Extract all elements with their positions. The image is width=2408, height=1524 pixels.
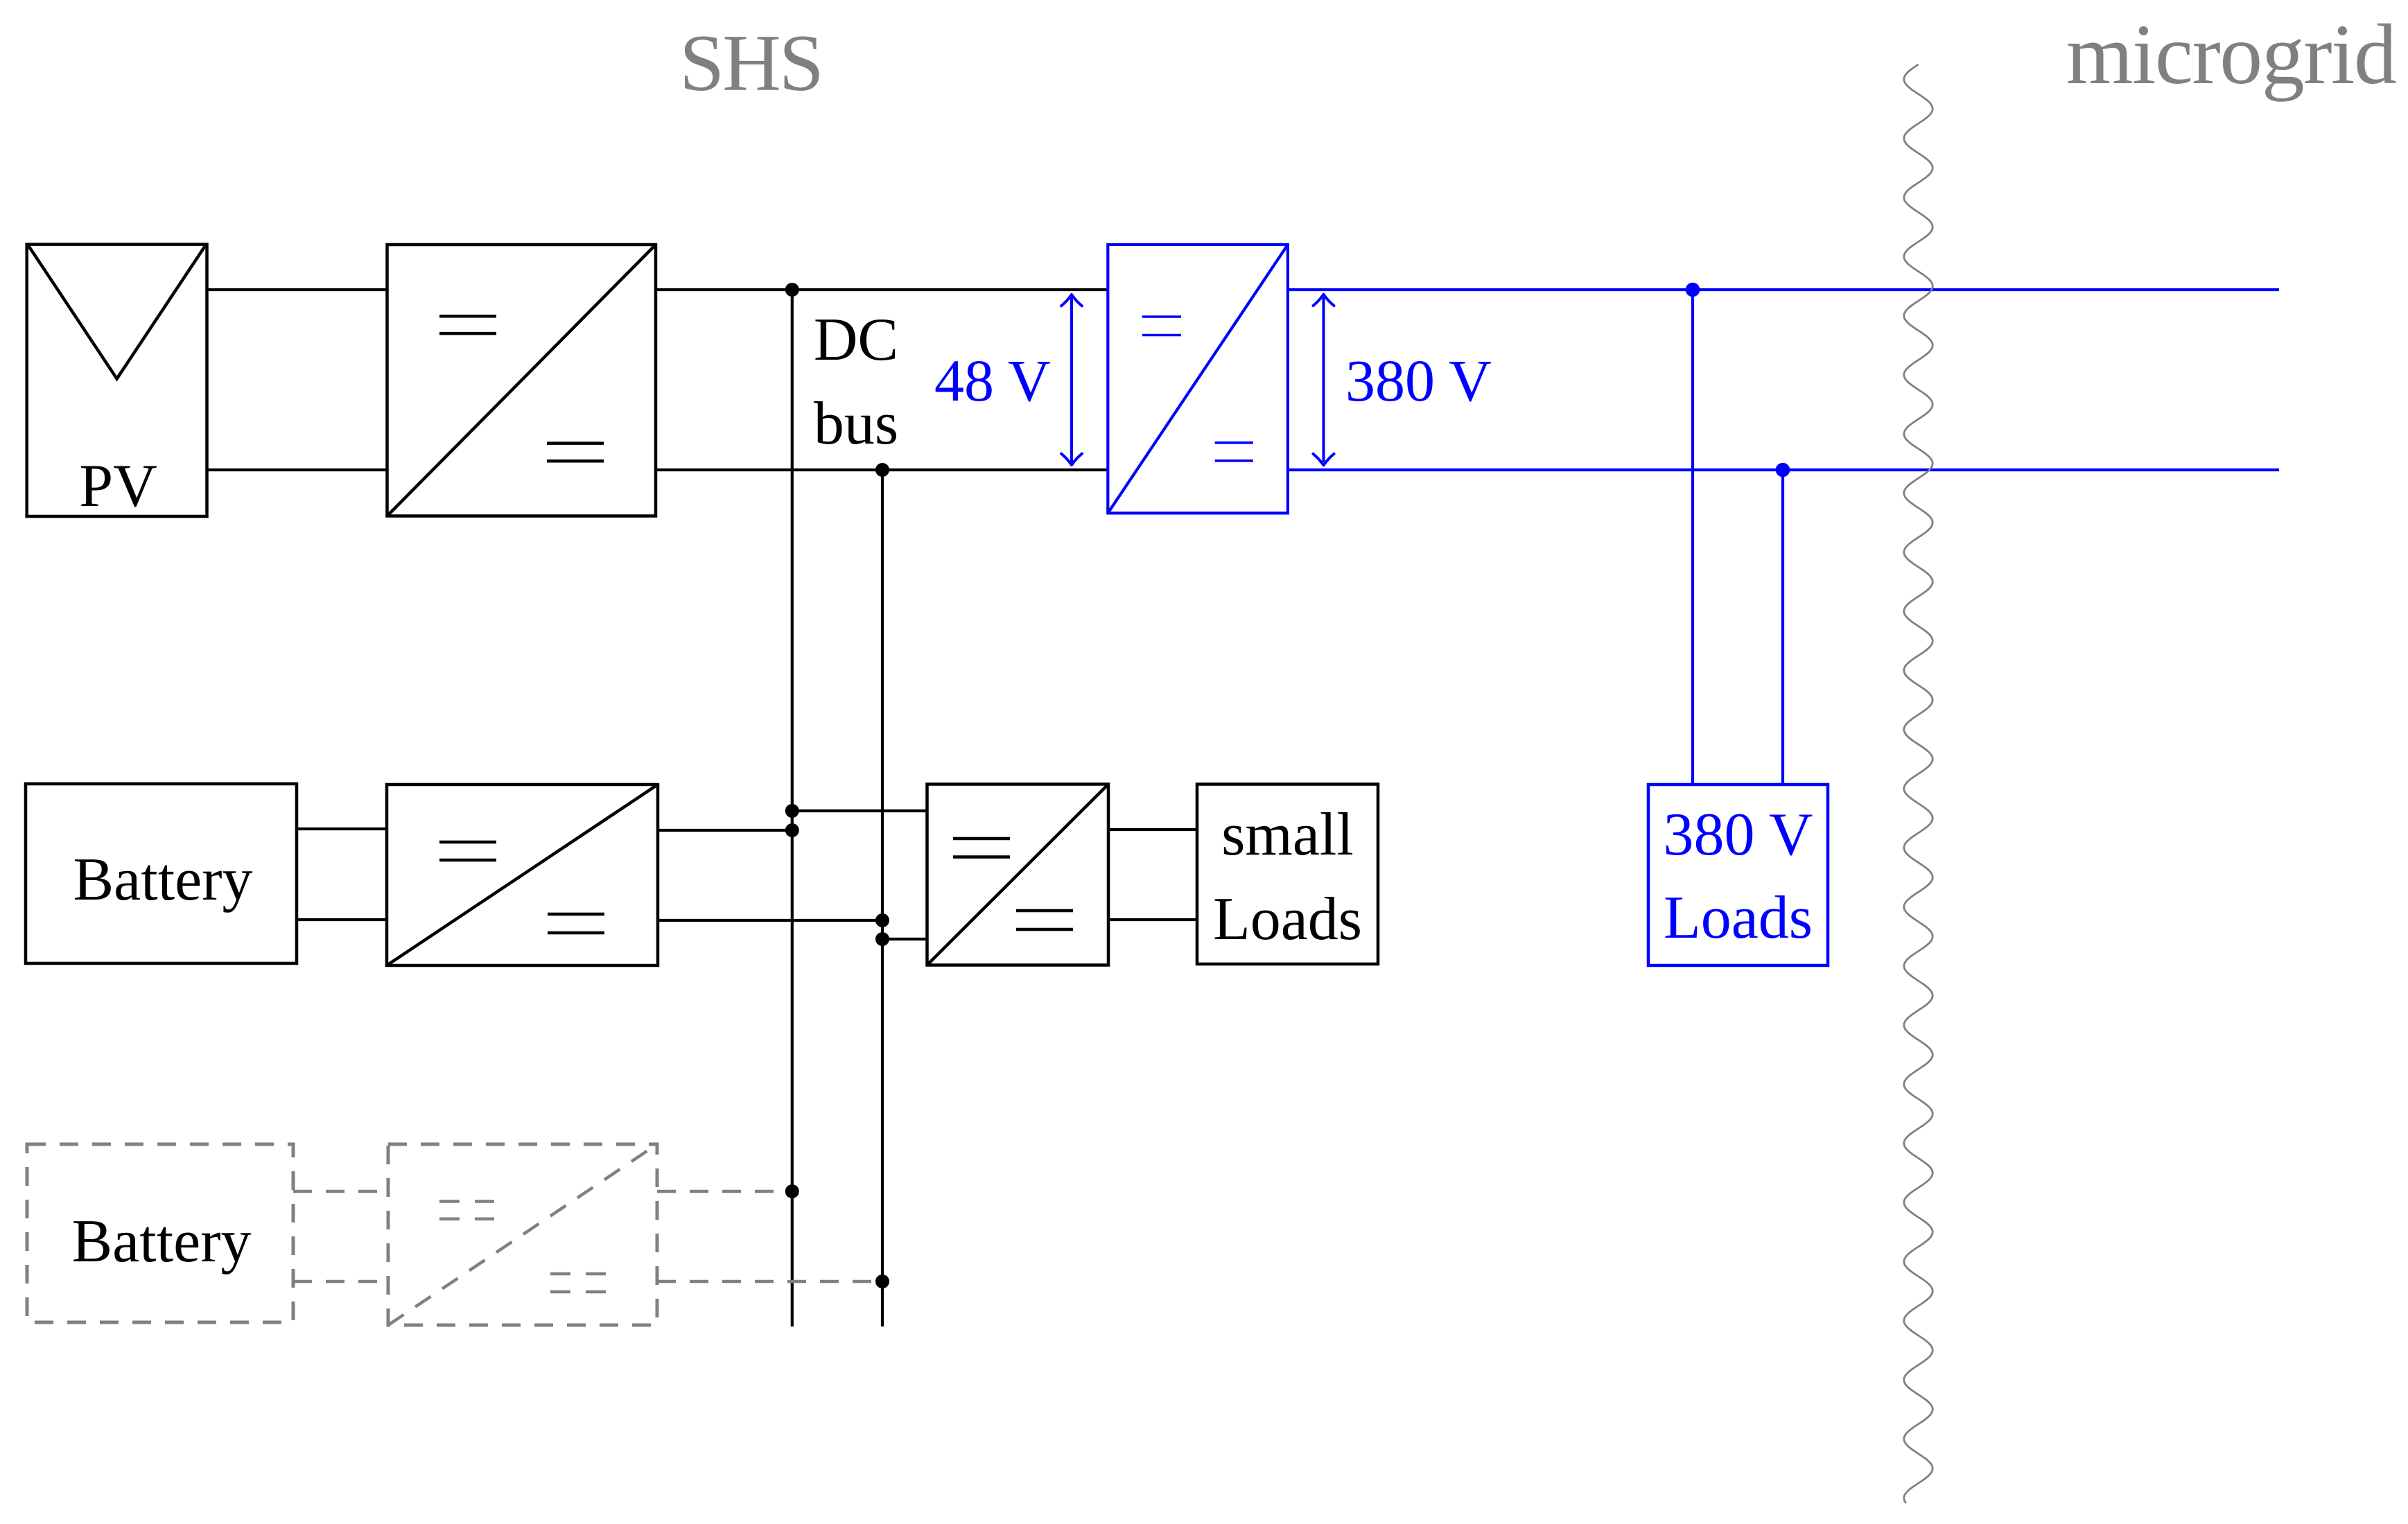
U2 DC symbol lower-right — [1215, 441, 1253, 444]
U5 DC symbol lower-right (dashed) — [550, 1272, 607, 1276]
svg-text:PV: PV — [79, 453, 157, 520]
svg-text:Battery: Battery — [73, 846, 252, 913]
junction dot bus+ top — [785, 283, 799, 297]
wire battery to U3 bottom — [297, 918, 387, 921]
blue drop wire to loads (left) — [1691, 290, 1694, 785]
dashed wire U5 to bus- — [657, 1280, 882, 1284]
PV panel V symbol — [29, 246, 205, 378]
DC/DC converter U2 48V-380V (blue) box — [1108, 245, 1288, 514]
svg-text:48 V: 48 V — [934, 347, 1051, 414]
junction dot U5/bus- — [875, 1275, 889, 1288]
wire U3 to bus+ — [658, 829, 792, 832]
U2 diagonal — [1108, 245, 1288, 514]
wire PV to converter top — [207, 288, 387, 291]
svg-text:Loads: Loads — [1213, 886, 1362, 953]
junction dot U3/bus- — [875, 913, 889, 927]
380 V arrow (blue, double headed) — [1323, 297, 1325, 462]
U5 dashed diagonal — [388, 1144, 657, 1325]
blue junction dot bottom — [1776, 463, 1790, 478]
wire PV to converter bottom — [207, 468, 387, 471]
junction dot U5/bus+ — [785, 1184, 799, 1198]
U4 DC symbol upper-left — [953, 837, 1010, 841]
junction dot bus-/U4 — [875, 932, 889, 946]
svg-text:bus: bus — [814, 390, 898, 457]
svg-text:small: small — [1221, 801, 1354, 868]
wire U1 to DC bus / blue converter top — [656, 288, 1108, 291]
DC/DC converter U1 (PV converter) box — [387, 245, 656, 516]
U1 DC symbol lower-right — [547, 441, 604, 445]
wire U3 to bus- — [658, 919, 882, 922]
DC bus positive rail (vertical) — [791, 290, 794, 1326]
wire bus+ to U4 — [792, 809, 927, 812]
DC bus negative rail (vertical) — [881, 470, 884, 1326]
U1 DC symbol upper-left — [439, 315, 496, 318]
svg-text:microgrid: microgrid — [2066, 7, 2396, 102]
380 V Loads box (blue) — [1648, 785, 1828, 965]
SHS / microgrid wavy separator — [1904, 64, 1933, 1503]
junction dot bus- top — [875, 463, 889, 477]
dashed wire battery to U5 bottom — [293, 1280, 388, 1284]
U5 DC symbol upper-left (dashed) — [439, 1200, 494, 1203]
svg-text:380 V: 380 V — [1345, 347, 1492, 414]
PV panel box — [27, 245, 207, 516]
blue 380V bus wire bottom — [1288, 468, 2279, 471]
U4 diagonal — [927, 785, 1109, 965]
future Battery box (dashed, row 3) — [27, 1144, 293, 1322]
U3 DC symbol lower-right — [548, 913, 604, 916]
dashed wire U5 to bus+ — [657, 1190, 792, 1193]
blue 380V bus wire top — [1288, 288, 2279, 291]
U1 diagonal — [387, 245, 656, 516]
wire battery to U3 top — [297, 827, 387, 830]
Battery box (row 2) — [26, 784, 297, 963]
wire bus- to U4 — [882, 938, 927, 940]
svg-text:380 V: 380 V — [1664, 801, 1813, 868]
48 V arrow (blue, double headed) — [1070, 297, 1073, 462]
U3 diagonal — [387, 785, 658, 965]
wire U4 to small loads bottom — [1108, 918, 1197, 921]
blue drop wire to loads (right) — [1781, 470, 1784, 785]
svg-text:Loads: Loads — [1664, 884, 1813, 952]
wire U4 to small loads top — [1108, 828, 1197, 831]
svg-text:DC: DC — [814, 306, 898, 374]
junction dot U3/bus+ — [785, 823, 799, 837]
junction dot bus+/U4 — [785, 804, 799, 818]
dashed wire battery to U5 top — [293, 1190, 388, 1193]
U2 DC symbol upper-left — [1142, 315, 1181, 318]
svg-text:Battery: Battery — [71, 1208, 251, 1275]
U4 DC symbol lower-right — [1016, 909, 1073, 913]
U3 DC symbol upper-left — [439, 841, 496, 844]
wire U1 to DC bus / blue converter bottom — [656, 468, 1108, 471]
blue junction dot top — [1686, 283, 1700, 297]
future DC/DC converter U5 box (dashed) — [388, 1144, 657, 1325]
DC/DC converter U3 (battery converter) box — [387, 785, 658, 965]
DC/DC converter U4 (loads converter) box — [927, 785, 1109, 965]
svg-text:SHS: SHS — [679, 19, 822, 108]
small Loads box — [1197, 785, 1378, 965]
